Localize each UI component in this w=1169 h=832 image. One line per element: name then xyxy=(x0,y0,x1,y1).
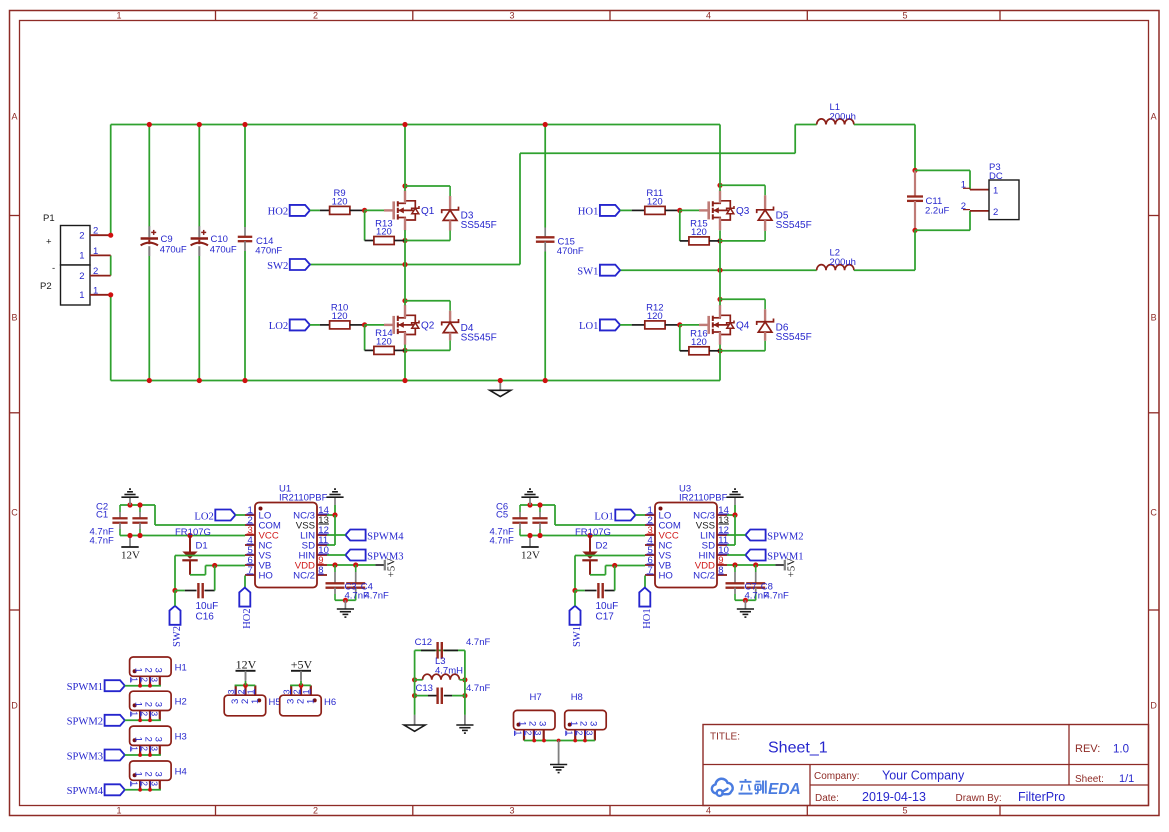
resistor R14 xyxy=(374,346,394,354)
svg-text:C: C xyxy=(1150,507,1157,517)
svg-text:H7: H7 xyxy=(530,692,542,703)
bootstrap cap C16 xyxy=(175,590,185,592)
bootstrap cap C17 xyxy=(575,590,585,592)
svg-text:SW1: SW1 xyxy=(577,267,598,278)
svg-text:SPWM4: SPWM4 xyxy=(67,786,104,797)
diode D1 xyxy=(189,536,191,552)
svg-text:3: 3 xyxy=(509,806,514,816)
svg-text:5: 5 xyxy=(902,10,907,20)
svg-text:D1: D1 xyxy=(196,541,208,552)
ground above pin14 xyxy=(734,498,736,505)
net flag HO1 xyxy=(639,588,650,607)
drain branch to diode D4 xyxy=(402,298,407,303)
svg-text:HO1: HO1 xyxy=(578,207,599,218)
svg-text:C5: C5 xyxy=(496,510,508,521)
svg-text:SPWM2: SPWM2 xyxy=(767,531,804,542)
net flag LO1 xyxy=(600,319,620,330)
svg-text:C17: C17 xyxy=(596,612,615,623)
svg-text:+5V: +5V xyxy=(291,657,313,671)
svg-text:4.7nF: 4.7nF xyxy=(466,683,490,694)
resistor R15 xyxy=(689,237,709,245)
SW1 wire xyxy=(620,269,817,271)
svg-text:4.7nF: 4.7nF xyxy=(365,591,389,602)
main vertical Q3Q4 xyxy=(719,125,721,191)
svg-text:1: 1 xyxy=(79,290,84,301)
svg-text:200uh: 200uh xyxy=(830,111,856,122)
svg-text:1: 1 xyxy=(305,699,316,704)
wires C11 to P3 xyxy=(915,169,970,171)
connector xyxy=(514,710,556,729)
svg-text:1: 1 xyxy=(133,668,144,673)
net flag HO1 xyxy=(600,205,620,216)
net flag SPWM4 xyxy=(345,530,365,541)
capacitor C9 xyxy=(148,125,150,227)
inductor L3 xyxy=(412,677,417,682)
svg-text:120: 120 xyxy=(376,337,392,348)
svg-text:H6: H6 xyxy=(324,697,336,708)
svg-text:3: 3 xyxy=(152,737,163,742)
svg-text:HO2: HO2 xyxy=(242,608,253,628)
svg-text:2: 2 xyxy=(79,230,84,241)
svg-text:2019-04-13: 2019-04-13 xyxy=(862,790,926,804)
pins left U3 xyxy=(645,514,655,516)
right vertical + earth gnd xyxy=(464,650,466,715)
svg-text:+: + xyxy=(46,237,52,248)
P1 pins xyxy=(90,234,111,236)
svg-text:Q2: Q2 xyxy=(421,321,435,332)
pins right U1 xyxy=(317,514,327,516)
svg-text:Q3: Q3 xyxy=(736,206,750,217)
main vertical Q1Q2 xyxy=(404,125,406,191)
drain branch to diode D6 xyxy=(717,297,722,302)
svg-text:DC: DC xyxy=(989,171,1003,182)
svg-text:12V: 12V xyxy=(121,550,140,562)
net flag SW2 xyxy=(290,259,310,270)
svg-text:470uF: 470uF xyxy=(160,244,187,255)
svg-text:2: 2 xyxy=(578,721,589,726)
connector H1 xyxy=(130,657,172,676)
svg-text:SPWM1: SPWM1 xyxy=(67,682,104,693)
capacitor C13 xyxy=(412,693,417,698)
svg-text:FR107G: FR107G xyxy=(175,527,211,538)
diode FR107G xyxy=(187,533,192,538)
source row wire xyxy=(717,348,722,353)
svg-text:1: 1 xyxy=(568,721,579,726)
svg-text:1: 1 xyxy=(517,721,528,726)
svg-text:10uF: 10uF xyxy=(196,601,219,612)
svg-text:1/1: 1/1 xyxy=(1119,773,1134,785)
diode D4 xyxy=(449,301,451,311)
svg-text:FilterPro: FilterPro xyxy=(1018,790,1065,804)
VDD rail to +5V xyxy=(327,564,375,566)
svg-text:FR107G: FR107G xyxy=(575,527,611,538)
net flag SPWM1 xyxy=(105,680,125,691)
svg-text:4.7nF: 4.7nF xyxy=(490,536,514,547)
LC filter C12 L3 C13 xyxy=(415,649,465,651)
HO wire + flag xyxy=(244,576,246,588)
svg-text:3: 3 xyxy=(152,702,163,707)
svg-text:A: A xyxy=(11,111,17,121)
capacitor C15 xyxy=(544,125,546,228)
net flag SPWM3 xyxy=(345,550,365,561)
resistor R13 xyxy=(374,237,394,245)
svg-text:2: 2 xyxy=(313,806,318,816)
wire L1 to C11 xyxy=(914,125,916,171)
net flag LO1 xyxy=(615,510,635,521)
svg-text:IR2110PBF: IR2110PBF xyxy=(679,493,728,504)
svg-text:2: 2 xyxy=(143,668,154,673)
svg-text:1.0: 1.0 xyxy=(1113,744,1129,756)
SW2 wire xyxy=(310,264,520,266)
svg-text:4.7mH: 4.7mH xyxy=(435,665,463,676)
svg-text:Your Company: Your Company xyxy=(882,769,965,783)
EasyEDA logo xyxy=(712,779,733,796)
diode FR107G xyxy=(587,533,592,538)
svg-text:4.7nF: 4.7nF xyxy=(765,591,789,602)
net flag SPWM3 xyxy=(105,750,125,761)
svg-text:REV:: REV: xyxy=(1075,743,1100,755)
net flag SPWM2 xyxy=(745,530,765,541)
svg-text:SW2: SW2 xyxy=(267,261,288,272)
IC U1 IR2110PBF xyxy=(255,503,317,588)
resistor R9 xyxy=(330,206,350,214)
svg-text:D: D xyxy=(11,700,18,710)
svg-text:3: 3 xyxy=(536,721,547,726)
ground above pin14 xyxy=(334,498,336,505)
svg-text:SW2: SW2 xyxy=(172,626,183,647)
net flag SW1 xyxy=(570,606,581,625)
transistor Q1 xyxy=(384,209,395,211)
svg-text:2: 2 xyxy=(993,207,998,218)
svg-text:NC/2: NC/2 xyxy=(693,570,715,581)
pin14 to SD wire xyxy=(727,514,735,516)
svg-text:SPWM3: SPWM3 xyxy=(67,751,104,762)
H7 H8 gnd wire xyxy=(524,740,595,742)
svg-text:12V: 12V xyxy=(521,550,540,562)
svg-text:470uF: 470uF xyxy=(210,244,237,255)
svg-text:1: 1 xyxy=(116,10,121,20)
svg-text:IR2110PBF: IR2110PBF xyxy=(279,493,328,504)
svg-text:C12: C12 xyxy=(415,637,432,648)
svg-text:120: 120 xyxy=(332,197,348,208)
svg-text:1: 1 xyxy=(116,806,121,816)
VS wire + SW flag xyxy=(575,555,645,557)
svg-text:2: 2 xyxy=(143,772,154,777)
svg-text:B: B xyxy=(1151,312,1157,322)
svg-text:2: 2 xyxy=(79,271,84,282)
gate-source resistor R15 xyxy=(679,210,681,241)
capacitor C10 xyxy=(198,125,200,227)
svg-text:SS545F: SS545F xyxy=(461,220,497,231)
gate-source resistor R14 xyxy=(364,325,366,351)
svg-text:3: 3 xyxy=(588,721,599,726)
svg-text:D2: D2 xyxy=(596,541,608,552)
net flag HO2 xyxy=(290,205,310,216)
transistor Q2 xyxy=(384,324,395,326)
diode D6 xyxy=(764,299,766,309)
VB wire xyxy=(606,565,646,567)
pins right U3 xyxy=(717,514,727,516)
connector H6 xyxy=(280,695,322,716)
diode D5 xyxy=(764,185,766,195)
net flag LO2 xyxy=(290,319,310,330)
svg-text:Sheet_1: Sheet_1 xyxy=(768,740,828,757)
svg-text:120: 120 xyxy=(647,197,663,208)
caps C3 C4 xyxy=(334,565,336,572)
svg-text:2: 2 xyxy=(143,702,154,707)
inductor L2 xyxy=(817,265,854,271)
svg-text:H5: H5 xyxy=(269,697,281,708)
connector P1 xyxy=(61,226,91,266)
transistor Q3 xyxy=(699,209,710,211)
svg-text:Company:: Company: xyxy=(814,771,860,782)
connector H2 xyxy=(130,691,172,710)
net flag LO2 xyxy=(215,510,235,521)
svg-text:P1: P1 xyxy=(43,213,55,224)
svg-text:1: 1 xyxy=(993,186,998,197)
svg-text:+5V: +5V xyxy=(786,558,798,578)
svg-text:SS545F: SS545F xyxy=(776,332,812,343)
ground above caps xyxy=(529,498,531,505)
svg-text:1: 1 xyxy=(133,772,144,777)
svg-text:3: 3 xyxy=(152,668,163,673)
resistor R12 xyxy=(645,321,665,329)
svg-text:5: 5 xyxy=(902,806,907,816)
svg-text:2: 2 xyxy=(143,737,154,742)
svg-text:Sheet:: Sheet: xyxy=(1075,774,1104,785)
svg-text:A: A xyxy=(1151,111,1157,121)
IC U3 IR2110PBF xyxy=(655,503,717,588)
svg-text:120: 120 xyxy=(376,227,392,238)
svg-text:120: 120 xyxy=(647,311,663,322)
svg-text:SPWM4: SPWM4 xyxy=(367,531,404,542)
net flag HO2 xyxy=(239,588,250,607)
svg-text:D: D xyxy=(1150,700,1157,710)
connector H3 xyxy=(130,726,172,745)
svg-text:1: 1 xyxy=(133,702,144,707)
top +rail wire xyxy=(111,124,720,126)
svg-text:200uh: 200uh xyxy=(830,257,856,268)
svg-text:SS545F: SS545F xyxy=(461,332,497,343)
caps C1 C2 xyxy=(120,504,155,506)
ground at bottom rail xyxy=(499,381,501,391)
VS wire + SW flag xyxy=(175,555,245,557)
connector xyxy=(565,710,607,729)
svg-text:4.7nF: 4.7nF xyxy=(90,536,114,547)
net flag SW2 xyxy=(170,606,181,625)
connector H4 xyxy=(130,761,172,780)
gate-source resistor R13 xyxy=(364,210,366,240)
title block xyxy=(703,725,1149,806)
svg-text:C13: C13 xyxy=(416,683,433,694)
svg-text:EDA: EDA xyxy=(768,781,801,798)
drain branch to diode D5 xyxy=(717,183,722,188)
svg-text:C: C xyxy=(11,507,18,517)
svg-text:SS545F: SS545F xyxy=(776,220,812,231)
svg-text:H1: H1 xyxy=(175,662,187,673)
svg-text:1: 1 xyxy=(250,699,261,704)
ground above caps xyxy=(129,498,131,505)
svg-text:SW1: SW1 xyxy=(572,626,583,647)
pin14 to SD wire xyxy=(327,514,335,516)
net flag SPWM4 xyxy=(105,784,125,795)
svg-text:Q4: Q4 xyxy=(736,321,750,332)
net flag SW1 xyxy=(600,265,620,276)
pins left U1 xyxy=(245,514,255,516)
resistor R16 xyxy=(689,347,709,355)
connector P2 xyxy=(61,265,91,305)
svg-text:3: 3 xyxy=(509,10,514,20)
svg-text:HO: HO xyxy=(659,570,673,581)
net flag SPWM2 xyxy=(105,715,125,726)
svg-text:470nF: 470nF xyxy=(557,246,584,257)
svg-text:120: 120 xyxy=(332,311,348,322)
svg-text:Q1: Q1 xyxy=(421,206,435,217)
svg-text:LO2: LO2 xyxy=(194,511,213,522)
capacitor C12 xyxy=(421,649,436,651)
drain branch to diode D3 xyxy=(402,183,407,188)
wire SW2 node to L1 xyxy=(519,153,521,264)
svg-text:H3: H3 xyxy=(175,731,187,742)
svg-text:120: 120 xyxy=(691,227,707,238)
svg-text:+5V: +5V xyxy=(386,558,398,578)
12V power below caps xyxy=(129,538,131,547)
VDD rail to +5V xyxy=(727,564,775,566)
svg-text:HO1: HO1 xyxy=(642,608,653,628)
connector P3 xyxy=(989,180,1019,220)
svg-text:C16: C16 xyxy=(196,612,215,623)
svg-text:2.2uF: 2.2uF xyxy=(925,206,949,217)
connector H5 xyxy=(224,695,266,716)
svg-text:LO1: LO1 xyxy=(579,321,598,332)
net flag SPWM1 xyxy=(745,550,765,561)
svg-text:4.7nF: 4.7nF xyxy=(466,637,490,648)
capacitor C11 xyxy=(912,168,917,173)
svg-text:P2: P2 xyxy=(40,281,52,292)
diode D2 xyxy=(589,536,591,552)
VB wire xyxy=(206,565,246,567)
svg-text:4: 4 xyxy=(706,10,711,20)
capacitor C14 xyxy=(244,125,246,228)
svg-text:H8: H8 xyxy=(571,692,583,703)
svg-text:Drawn By:: Drawn By: xyxy=(956,793,1002,804)
svg-text:TITLE:: TITLE: xyxy=(710,732,740,743)
HO wire + flag xyxy=(644,576,646,588)
svg-text:H2: H2 xyxy=(175,697,187,708)
svg-text:SPWM2: SPWM2 xyxy=(67,717,104,728)
svg-text:12V: 12V xyxy=(236,657,257,671)
caps C7 C8 xyxy=(734,565,736,572)
svg-text:3: 3 xyxy=(152,772,163,777)
svg-text:HO: HO xyxy=(259,570,273,581)
svg-text:H4: H4 xyxy=(175,766,187,777)
svg-text:120: 120 xyxy=(691,337,707,348)
svg-text:4: 4 xyxy=(706,806,711,816)
left rail verticals xyxy=(110,125,112,236)
svg-text:C1: C1 xyxy=(96,510,108,521)
svg-text:1: 1 xyxy=(79,251,84,262)
resistor R10 xyxy=(330,321,350,329)
svg-text:Date:: Date: xyxy=(815,793,839,804)
svg-text:B: B xyxy=(11,312,17,322)
resistor R11 xyxy=(645,206,665,214)
svg-text:1: 1 xyxy=(133,737,144,742)
svg-text:10uF: 10uF xyxy=(596,601,619,612)
svg-text:2: 2 xyxy=(961,201,966,212)
svg-text:LO1: LO1 xyxy=(594,511,613,522)
svg-text:2: 2 xyxy=(527,721,538,726)
svg-text:1: 1 xyxy=(961,180,966,191)
left vertical + gnd xyxy=(414,650,416,715)
source row wire xyxy=(402,348,407,353)
svg-text:-: - xyxy=(52,263,55,274)
inductor L1 xyxy=(795,124,817,126)
transistor Q4 xyxy=(699,324,710,326)
gate-source resistor R16 xyxy=(679,325,681,351)
svg-text:2: 2 xyxy=(313,10,318,20)
svg-text:LO2: LO2 xyxy=(269,321,288,332)
source row wire xyxy=(717,238,722,243)
source row wire xyxy=(402,238,407,243)
diode D3 xyxy=(449,186,451,196)
bottom -rail wire xyxy=(111,380,720,382)
svg-text:HO2: HO2 xyxy=(268,207,289,218)
svg-text:470nF: 470nF xyxy=(255,246,282,257)
svg-text:NC/2: NC/2 xyxy=(293,570,315,581)
12V power below caps xyxy=(529,538,531,547)
caps C5 C6 xyxy=(520,504,555,506)
